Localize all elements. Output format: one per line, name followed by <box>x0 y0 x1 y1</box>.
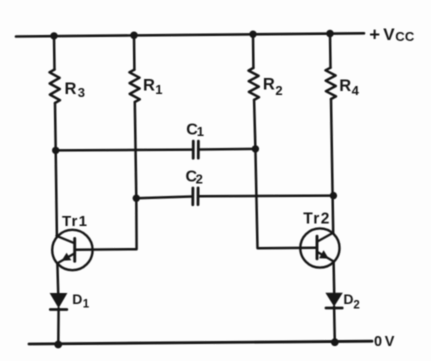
node junction bottom rail / D1 <box>54 341 62 349</box>
svg-text:1: 1 <box>155 82 162 97</box>
svg-text:4: 4 <box>352 83 360 98</box>
capacitor C2 <box>193 188 198 205</box>
node junction top rail / R4 <box>326 30 334 38</box>
wire Tr2 emitter to D2 <box>332 262 335 293</box>
svg-text:R: R <box>65 80 77 98</box>
svg-text:V: V <box>385 334 395 350</box>
svg-text:2: 2 <box>275 83 282 98</box>
svg-text:1: 1 <box>197 124 204 139</box>
label D2 <box>343 291 359 311</box>
wire D1 to bottom rail <box>57 308 60 344</box>
wire C2 right plate to node D <box>199 194 333 197</box>
label C1 <box>186 122 204 139</box>
label C2 <box>186 168 203 186</box>
svg-text:Tr1: Tr1 <box>62 213 88 230</box>
svg-text:+: + <box>369 23 380 44</box>
net label 0V <box>374 334 395 350</box>
wire R1 to node C <box>135 102 137 198</box>
resistor R1 <box>129 70 139 102</box>
svg-text:D: D <box>72 291 82 307</box>
svg-text:Tr2: Tr2 <box>303 211 330 228</box>
wire top rail to R4 <box>329 34 332 68</box>
node junction top rail / R2 <box>249 31 256 38</box>
node junction bottom rail / D2 <box>331 338 339 346</box>
svg-text:R: R <box>339 77 351 95</box>
svg-text:2: 2 <box>353 299 359 311</box>
label R3 <box>65 80 86 100</box>
svg-text:2: 2 <box>196 172 203 187</box>
node junction top rail / R1 <box>130 32 138 40</box>
svg-text:V: V <box>383 25 395 44</box>
svg-text:R: R <box>263 76 275 94</box>
wire +Vcc top rail <box>16 33 364 36</box>
label R1 <box>143 77 162 97</box>
label D1 <box>72 291 90 310</box>
node C junction R1 / C2 <box>133 195 140 202</box>
wire node A to C1 left plate <box>56 148 192 151</box>
wire R2 to node B <box>254 100 255 149</box>
net label +Vcc <box>369 23 415 44</box>
capacitor C1 <box>193 141 198 158</box>
transistor Tr1 <box>52 230 92 270</box>
resistor R3 <box>50 70 61 104</box>
wire top rail to R1 <box>133 35 136 69</box>
wire R3 to node A <box>54 103 57 150</box>
svg-text:R: R <box>143 77 155 95</box>
wire top rail to R2 <box>252 34 255 68</box>
wire C1 right plate to node B <box>200 148 256 151</box>
label Tr1 <box>62 213 88 230</box>
node junction top rail / R3 <box>50 32 57 39</box>
node D junction C2 / R4 <box>330 192 337 199</box>
wire R4 to Tr2 collector <box>331 99 333 233</box>
svg-text:3: 3 <box>78 85 85 100</box>
resistor R4 <box>326 68 337 99</box>
svg-text:CC: CC <box>395 29 415 44</box>
label Tr2 <box>303 211 330 228</box>
node B junction C1 / R2 <box>252 145 259 152</box>
svg-text:D: D <box>343 291 353 307</box>
resistor R2 <box>249 68 260 100</box>
wire 0V bottom rail <box>29 341 372 344</box>
label R4 <box>339 77 359 98</box>
wire Tr1 emitter to D1 <box>56 264 59 293</box>
svg-text:0: 0 <box>374 334 382 350</box>
wire node B to Tr2 base corner <box>255 149 316 248</box>
svg-text:1: 1 <box>83 298 90 310</box>
diode D2 <box>325 293 342 308</box>
wire node C to C2 left plate <box>136 197 191 199</box>
node A junction R3 / C1 / Tr1 collector <box>52 147 59 154</box>
wire D2 to bottom rail <box>333 307 336 342</box>
wire top rail to R3 <box>53 36 56 70</box>
wire node C to Tr1 base corner <box>75 198 137 250</box>
label R2 <box>263 76 283 98</box>
wire node A to Tr1 collector <box>56 150 57 236</box>
transistor Tr2 <box>300 228 339 267</box>
diode D1 <box>50 293 68 310</box>
